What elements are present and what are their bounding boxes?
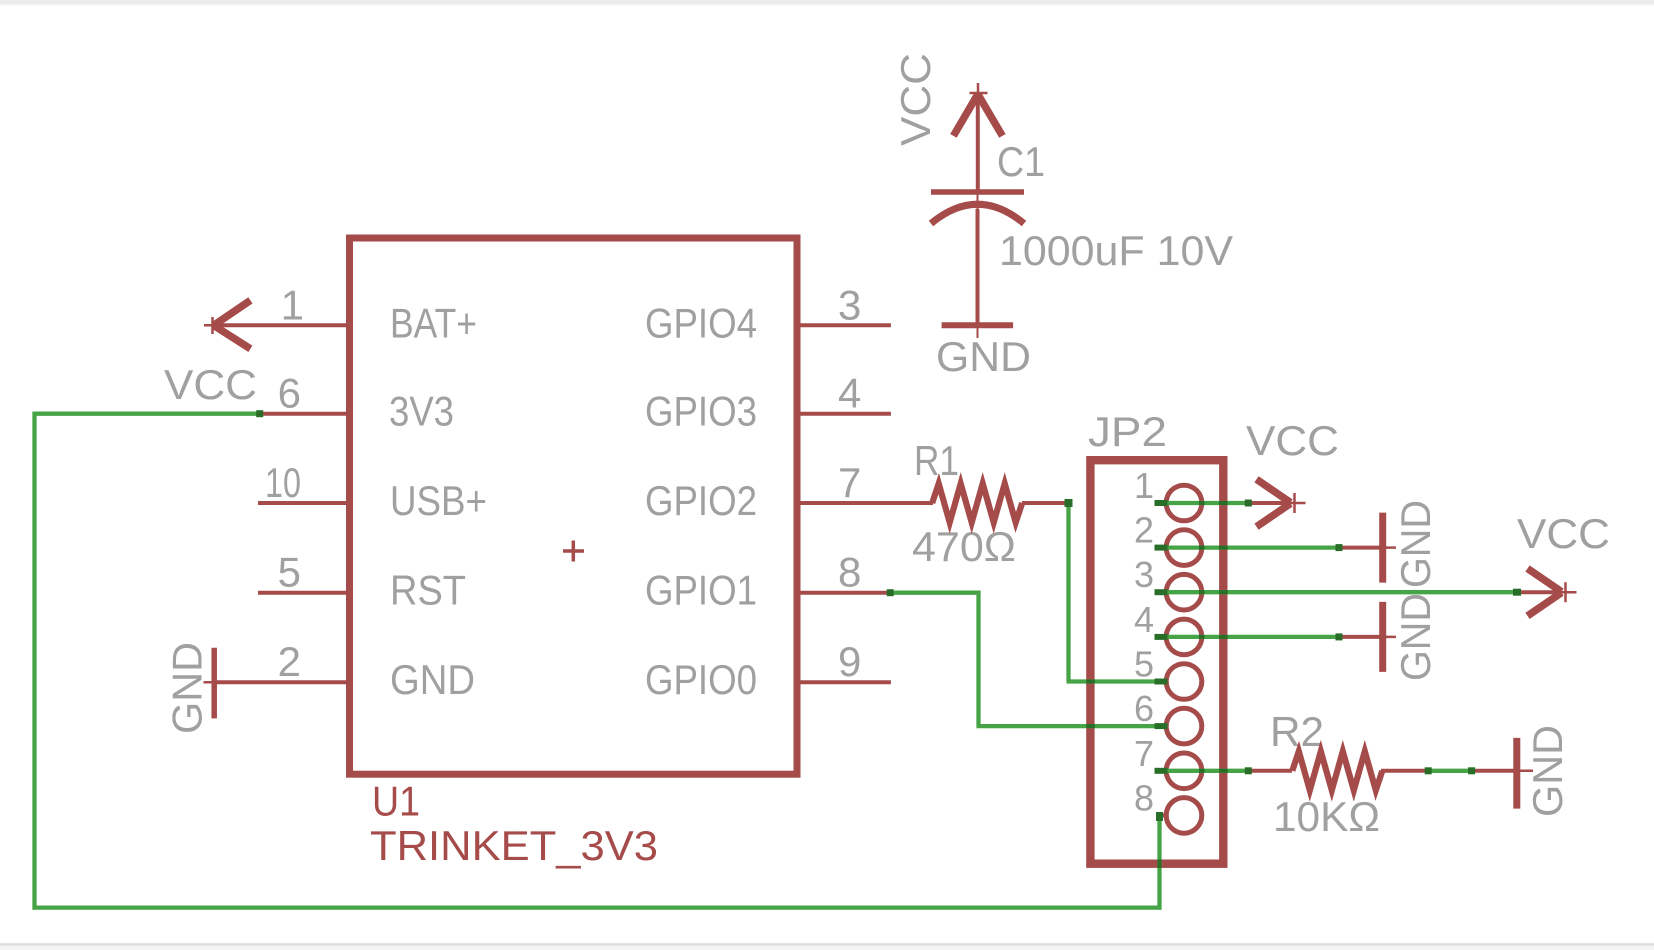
VCC arrow far right at JP2 pin 3 [1519, 590, 1561, 594]
svg-text:GND: GND [390, 656, 475, 703]
wire JP2 pin 4 to GND [1156, 635, 1340, 639]
JP2 pin 8 connection stub [1160, 813, 1167, 817]
svg-text:VCC: VCC [1246, 417, 1339, 464]
svg-text:VCC: VCC [1517, 510, 1610, 557]
JP2 pin 2 pad circle [1166, 530, 1202, 566]
capacitor C1 pin cross between plates [977, 194, 979, 226]
svg-text:2: 2 [278, 638, 301, 685]
GND stub at JP2 pin 2 [1340, 546, 1380, 550]
U1 pin 8 GPIO1 stub [800, 591, 891, 595]
wire R2 to GND symbol [1427, 769, 1472, 773]
capacitor C1 top plate [931, 189, 1024, 195]
wire over circle stroke overlap row 1 [1199, 501, 1205, 505]
svg-text:1: 1 [281, 281, 304, 328]
junction at JP2 pin 3 [1155, 589, 1168, 595]
wire net VCC bottom horizontal [33, 905, 1162, 909]
JP2 pin 5 connection stub [1160, 680, 1167, 684]
svg-text:U1: U1 [372, 778, 420, 825]
svg-text:4: 4 [838, 370, 861, 417]
junction wire to VCC arrow pin 1 [1245, 500, 1252, 507]
junction at JP2 pin 6 [1155, 723, 1168, 729]
JP2 pin 3 connection stub [1160, 590, 1167, 594]
svg-text:R1: R1 [914, 437, 959, 484]
ground bar at JP2 pin 2 [1379, 513, 1386, 583]
wire over circle stroke overlap row 2 [1199, 546, 1205, 550]
svg-text:2: 2 [1134, 510, 1154, 551]
JP2 pin 4 connection stub [1160, 635, 1167, 639]
resistor R1 zigzag body [932, 484, 1022, 523]
wire JP2 pin 1 to VCC arrow [1156, 501, 1249, 505]
junction at JP2 pin 2 [1155, 545, 1168, 551]
wire over JP2 left border overlap at row 6 [1086, 724, 1095, 728]
junction wire to R2 left [1245, 767, 1252, 774]
JP2 pin 3 pad circle [1166, 574, 1202, 610]
svg-text:3: 3 [1134, 554, 1154, 595]
U1 origin cross mark [563, 541, 584, 562]
JP2 pin 4 pad circle [1166, 619, 1202, 655]
svg-text:VCC: VCC [892, 53, 939, 146]
JP2 pin 2 connection stub [1160, 546, 1167, 550]
wire over JP2 right border overlap row 3 [1219, 590, 1228, 594]
capacitor C1 curved bottom plate [931, 204, 1024, 223]
svg-text:9: 9 [838, 638, 861, 685]
wire over JP2 left border overlap at row 5 [1086, 680, 1095, 684]
resistor R1 right lead [1022, 501, 1069, 505]
junction at R1 output corner [1065, 499, 1073, 507]
wire GPIO1 net from U1 pin 8 [889, 591, 981, 595]
GND stub at JP2 pin 4 [1340, 635, 1380, 639]
svg-text:3: 3 [838, 281, 861, 328]
svg-text:GND: GND [1392, 500, 1439, 588]
wire net VCC from 3V3 pin going left [33, 412, 261, 416]
wire over JP2 right border overlap row 4 [1219, 635, 1228, 639]
svg-text:5: 5 [278, 549, 301, 596]
wire over circle stroke overlap row 4 [1199, 635, 1205, 639]
wire JP2 pin 3 to far VCC arrow [1156, 590, 1517, 594]
junction wire to far VCC arrow [1513, 589, 1521, 596]
U1 pin 3 GPIO4 stub [800, 323, 891, 327]
connector JP2 body outline [1090, 460, 1223, 864]
U1 pin 2 GND stub with ground symbol [214, 680, 346, 684]
svg-text:RST: RST [390, 567, 466, 614]
svg-text:470Ω: 470Ω [912, 523, 1016, 570]
ground symbol bar below C1 [942, 322, 1014, 328]
wire over JP2 right border overlap row 1 [1219, 501, 1228, 505]
svg-text:GND: GND [1392, 593, 1439, 681]
wire over JP2 bottom border overlap pin 8 [1158, 860, 1162, 869]
JP2 pin 1 pad circle [1166, 485, 1202, 521]
JP2 pin 5 pad circle [1166, 664, 1202, 700]
wire net VCC left vertical [32, 412, 36, 910]
junction wire to GND pin 2 [1336, 544, 1343, 551]
svg-text:4: 4 [1134, 599, 1154, 640]
U1 pin 9 GPIO0 stub [800, 680, 891, 684]
junction R2 right lead [1425, 767, 1432, 774]
svg-text:6: 6 [278, 370, 301, 417]
U1 pin 6 3V3 stub [259, 412, 346, 416]
ground bar right of R2 [1513, 738, 1520, 809]
ground symbol pin cross below C1 bar [977, 328, 979, 338]
junction at JP2 pin 5 [1155, 679, 1168, 685]
junction wire to GND pin 4 [1336, 633, 1343, 640]
wire JP2 pin 7 to R2 [1156, 769, 1249, 773]
svg-text:GPIO3: GPIO3 [645, 388, 757, 435]
svg-text:VCC: VCC [164, 361, 257, 408]
bottom window chrome strip [0, 943, 1654, 946]
JP2 pin 6 pad circle [1166, 708, 1202, 744]
svg-text:10KΩ: 10KΩ [1273, 793, 1380, 840]
U1 pin 10 USB+ stub [258, 501, 346, 505]
junction at 3V3 pin [256, 410, 263, 417]
resistor R2 right lead [1381, 769, 1428, 773]
junction at JP2 pin 8 [1156, 812, 1163, 821]
svg-text:GPIO0: GPIO0 [645, 656, 757, 703]
capacitor C1 VCC arrow pointing up [976, 95, 980, 192]
JP2 pin 1 connection stub [1160, 501, 1167, 505]
wire JP2 pin 2 to GND [1156, 545, 1340, 549]
svg-text:USB+: USB+ [390, 477, 487, 524]
svg-text:3V3: 3V3 [389, 388, 454, 435]
wire GPIO1 net horizontal to JP2 pin 6 [977, 724, 1165, 728]
svg-text:BAT+: BAT+ [390, 299, 477, 346]
junction wire to R2 GND symbol [1468, 767, 1475, 774]
wire over circle stroke overlap row 3 [1199, 590, 1205, 594]
wire over circle stroke overlap row 7 [1199, 769, 1205, 773]
svg-text:GND: GND [936, 333, 1031, 380]
junction at JP2 pin 4 [1155, 634, 1168, 640]
svg-text:7: 7 [838, 459, 861, 506]
wire net VCC right vertical to JP2 pin 8 [1157, 815, 1161, 910]
junction at GPIO1 pin [887, 589, 894, 596]
ground bar at JP2 pin 4 [1379, 602, 1386, 672]
resistor R2 zigzag body [1292, 751, 1382, 790]
JP2 pin 8 pad circle [1166, 798, 1202, 834]
U1 pin 1 BAT+ stub with VCC arrow pointing left [213, 323, 347, 327]
resistor R2 left lead [1250, 769, 1292, 773]
svg-text:GND: GND [164, 642, 211, 734]
GND stub right of R2 [1472, 769, 1514, 773]
svg-text:8: 8 [1134, 777, 1154, 818]
svg-text:8: 8 [838, 549, 861, 596]
U1 pin 4 GPIO3 stub [800, 412, 891, 416]
wire GPIO2 net vertical from R1 to JP2 pin 5 [1066, 501, 1070, 682]
JP2 pin 7 connection stub [1160, 769, 1167, 773]
wire over JP2 right border overlap row 7 [1219, 769, 1228, 773]
wire over JP2 right border overlap row 2 [1219, 546, 1228, 550]
JP2 pin 6 connection stub [1160, 724, 1167, 728]
top window chrome strip [0, 0, 1654, 4]
svg-text:1000uF 10V: 1000uF 10V [999, 227, 1233, 274]
svg-text:JP2: JP2 [1088, 408, 1167, 455]
capacitor C1 bottom lead [976, 209, 980, 325]
svg-text:C1: C1 [997, 138, 1045, 185]
svg-text:5: 5 [1134, 644, 1154, 685]
svg-text:GPIO2: GPIO2 [645, 477, 757, 524]
svg-text:7: 7 [1134, 733, 1154, 774]
junction at JP2 pin 7 [1155, 768, 1168, 774]
VCC arrow at JP2 pin 1 [1248, 501, 1290, 505]
JP2 pin 7 pad circle [1166, 753, 1202, 789]
svg-text:1: 1 [1134, 465, 1154, 506]
wire GPIO2 net horizontal to JP2 pin 5 [1067, 679, 1165, 683]
svg-text:10: 10 [265, 459, 301, 506]
junction at JP2 pin 1 [1155, 500, 1168, 506]
svg-text:TRINKET_3V3: TRINKET_3V3 [370, 822, 658, 869]
U1 TRINKET_3V3 body outline [350, 238, 798, 774]
svg-text:GPIO4: GPIO4 [645, 299, 757, 346]
U1 pin 5 RST stub [258, 591, 346, 595]
wire GPIO1 net vertical [976, 591, 980, 726]
svg-text:GPIO1: GPIO1 [645, 567, 757, 614]
svg-text:6: 6 [1134, 688, 1154, 729]
U1 pin 7 GPIO2 stub joining R1 [800, 501, 933, 505]
